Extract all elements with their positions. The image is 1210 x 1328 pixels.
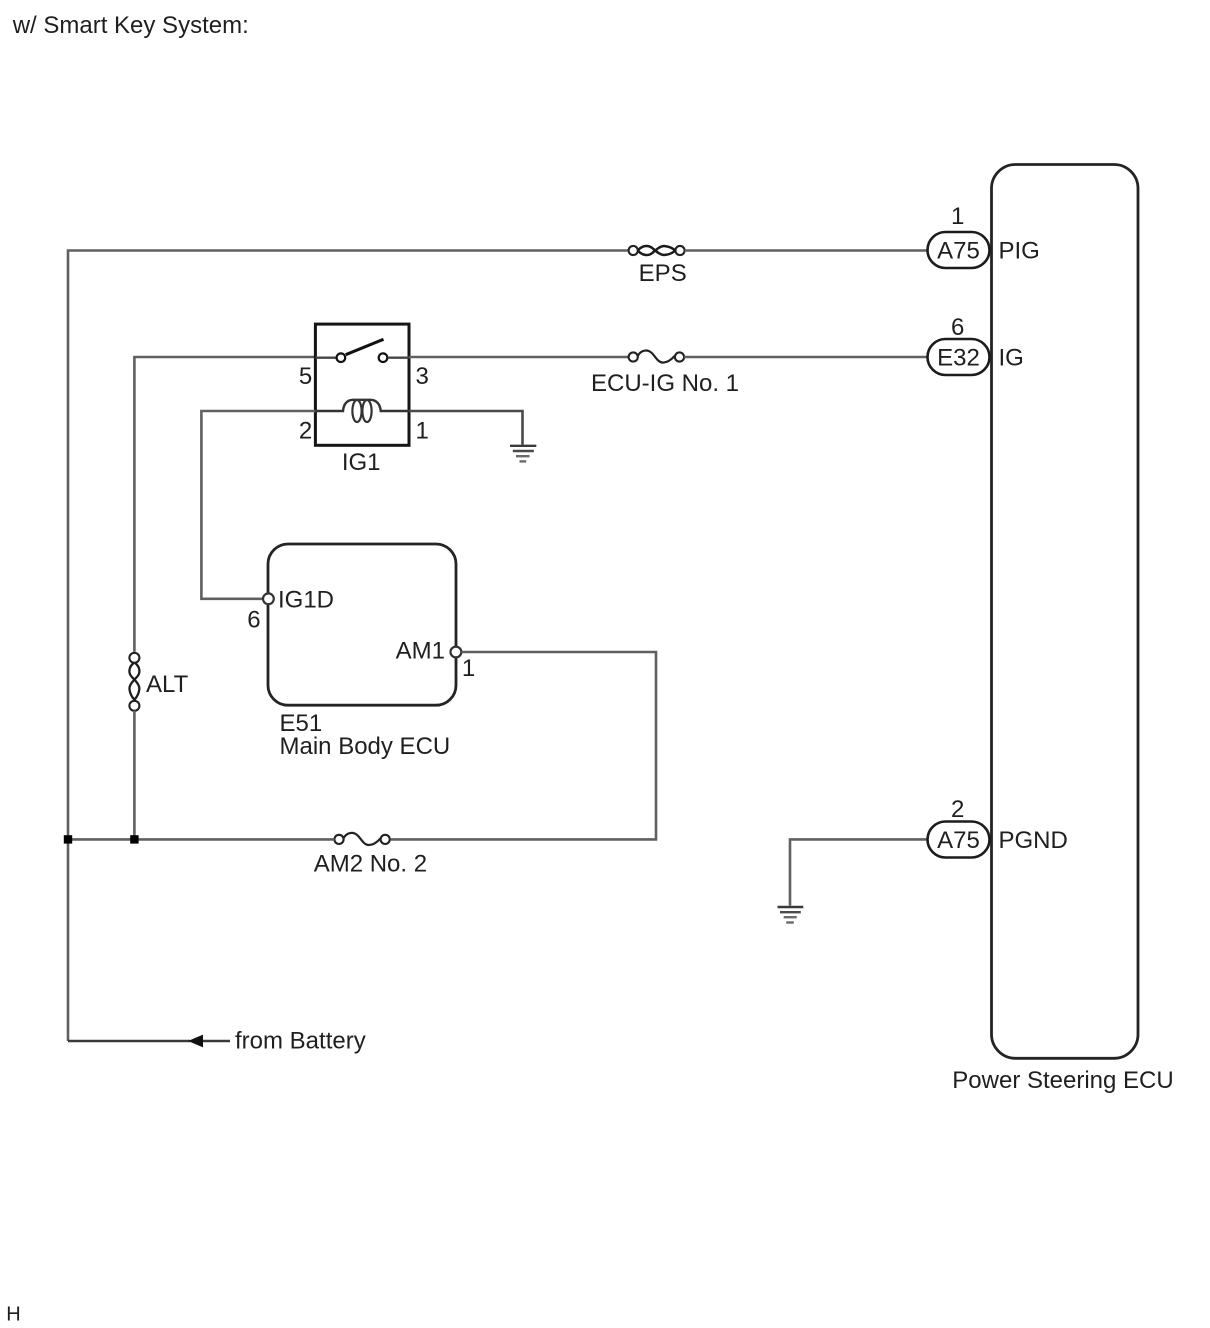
wire ECU-IG fuse to E32 — [684, 356, 928, 359]
wire: battery trunk (left vertical) with top wire to EPS fuse — [68, 251, 628, 1042]
svg-text:AM2 No. 2: AM2 No. 2 — [314, 851, 427, 878]
wire: AM1 to AM2 fuse — [391, 652, 656, 839]
wire: from-battery horizontal to arrow — [68, 1040, 230, 1042]
wire AM2 fuse to battery trunk — [68, 838, 334, 841]
switch blade — [346, 339, 384, 354]
wire: IG1 pin2 to Main Body ECU IG1D — [201, 411, 315, 599]
svg-text:ALT: ALT — [146, 671, 189, 698]
svg-text:IG1: IG1 — [342, 449, 381, 476]
Power Steering ECU box — [992, 165, 1139, 1059]
switch contacts and blade — [315, 357, 336, 359]
junction battery trunk — [64, 835, 72, 843]
svg-text:ECU-IG No. 1: ECU-IG No. 1 — [591, 370, 739, 397]
svg-text:6: 6 — [247, 607, 260, 634]
junction IG trunk — [130, 835, 138, 843]
pin IG1D circle — [263, 593, 274, 604]
svg-text:2: 2 — [299, 418, 312, 445]
connector E32 (IG) — [928, 339, 990, 375]
svg-text:1: 1 — [462, 655, 475, 682]
fuse AM2 No. 2 — [334, 835, 343, 844]
svg-text:IG: IG — [999, 345, 1024, 372]
switch IG1 box — [315, 324, 409, 445]
svg-text:from Battery: from Battery — [235, 1028, 366, 1055]
fuse ECU-IG No. 1 — [629, 352, 638, 361]
svg-text:A75: A75 — [937, 238, 980, 265]
svg-text:E32: E32 — [937, 345, 980, 372]
wire: IG1 pin1 to ground — [409, 411, 523, 445]
svg-text:PGND: PGND — [999, 827, 1068, 854]
svg-text:w/ Smart Key System:: w/ Smart Key System: — [12, 12, 249, 39]
svg-text:1: 1 — [416, 418, 429, 445]
svg-text:A75: A75 — [937, 827, 980, 854]
wire: PGND to ground — [790, 839, 928, 905]
wire EPS fuse to A75 PIG — [685, 249, 928, 252]
arrowhead from Battery — [188, 1035, 203, 1048]
svg-text:5: 5 — [299, 363, 312, 390]
svg-text:H: H — [6, 1304, 20, 1326]
wire: ECU-IG No.1 from switch to fuse — [409, 356, 629, 359]
ground (PGND) — [778, 907, 804, 923]
fuse EPS (fusible link symbol) — [629, 246, 638, 255]
ground (IG1) — [510, 446, 536, 462]
svg-text:EPS: EPS — [639, 260, 687, 287]
svg-text:6: 6 — [951, 314, 964, 341]
connector A75 (PGND) — [928, 822, 990, 858]
svg-text:AM1: AM1 — [396, 638, 445, 665]
pin AM1 circle — [451, 647, 462, 658]
svg-text:1: 1 — [951, 203, 964, 230]
wire: IG trunk vertical (x=134) — [134, 357, 315, 652]
svg-text:Main Body ECU: Main Body ECU — [280, 733, 451, 760]
svg-text:Power Steering ECU: Power Steering ECU — [952, 1067, 1173, 1094]
connector A75 (PIG) — [928, 232, 990, 268]
Main Body ECU box E51 — [268, 544, 456, 705]
fusible link ALT — [129, 653, 139, 663]
svg-text:3: 3 — [416, 363, 429, 390]
svg-text:2: 2 — [951, 796, 964, 823]
coil inside IG1 — [315, 400, 409, 411]
svg-text:IG1D: IG1D — [278, 587, 334, 614]
svg-text:PIG: PIG — [999, 238, 1040, 265]
wire ALT to AM2 junction — [133, 711, 136, 840]
